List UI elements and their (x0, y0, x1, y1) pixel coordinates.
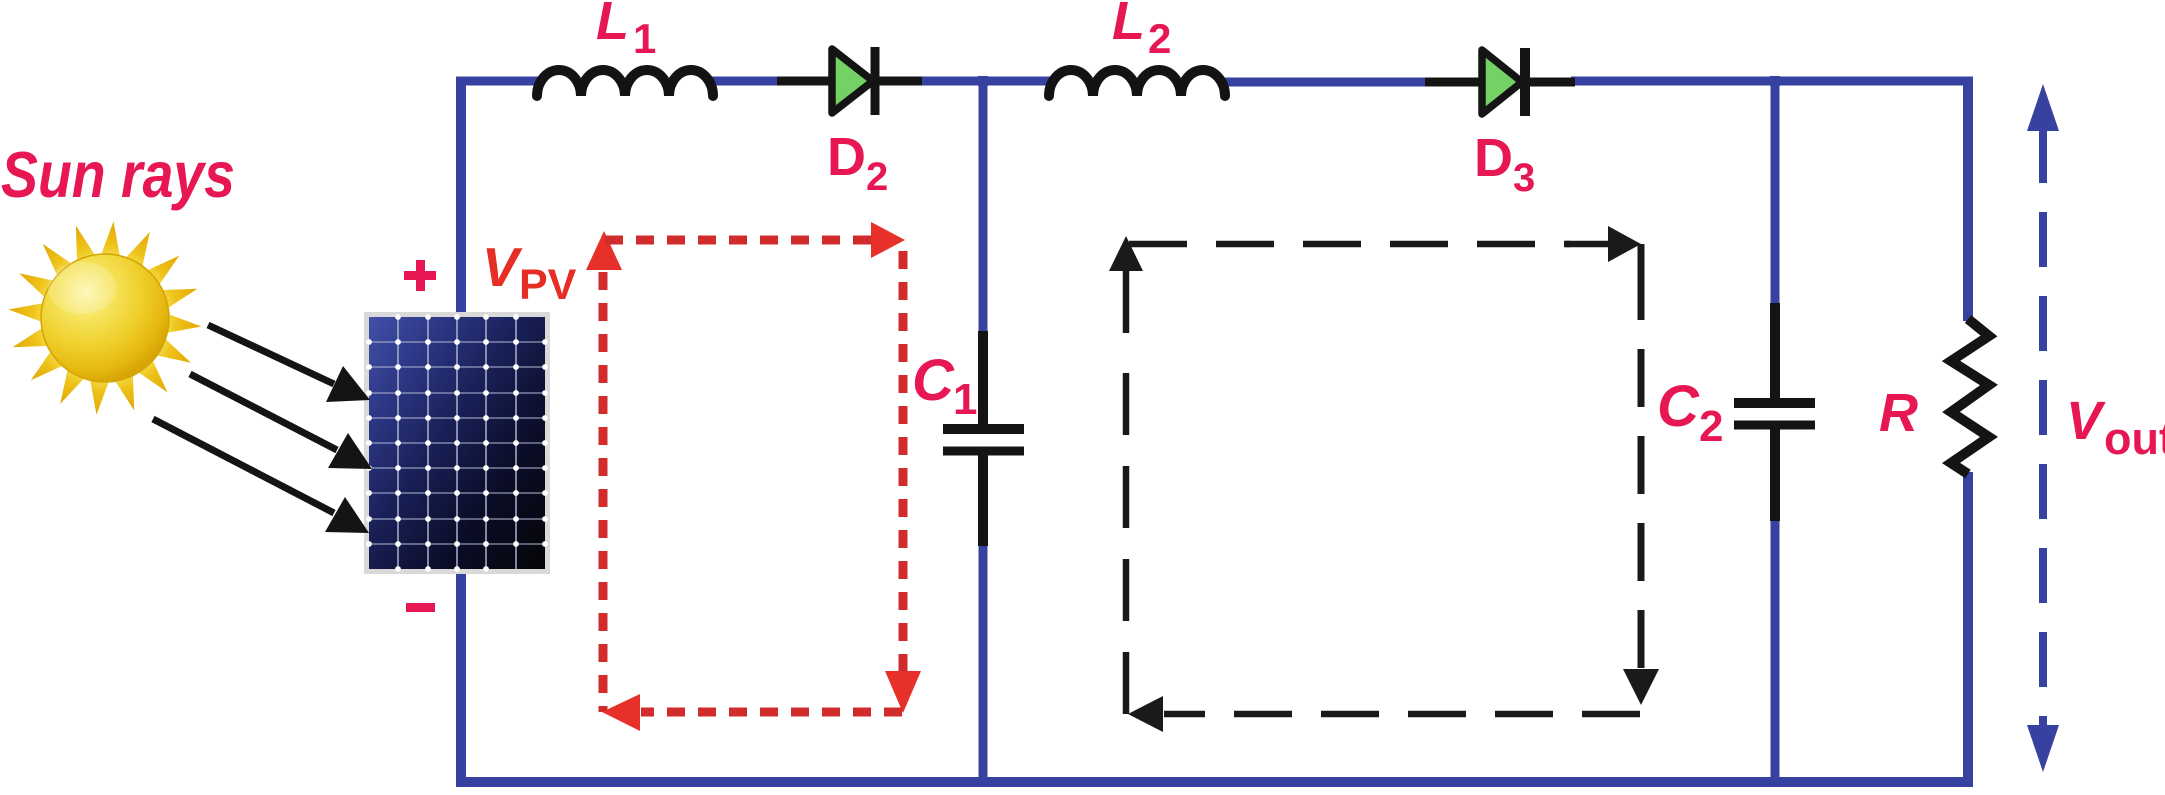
wire: C1 branch blue above (979, 78, 988, 335)
svg-text:C: C (912, 348, 955, 413)
inductor L1 (537, 70, 713, 96)
red current loop: top edge (dashed, arrow right) (603, 222, 905, 258)
svg-text:V: V (482, 236, 523, 298)
sun ray arrow 1 (208, 325, 370, 402)
sun (8, 221, 201, 414)
label C1 (912, 348, 977, 424)
svg-text:2: 2 (1699, 402, 1723, 451)
svg-text:3: 3 (1513, 156, 1535, 200)
wire: top horizontal segment L2 to D3 (1221, 78, 1429, 87)
svg-text:L: L (596, 0, 629, 51)
red current loop: right edge (dashed, arrow down) (885, 240, 921, 713)
black current loop: top edge (dashed, arrow right) (1129, 226, 1641, 262)
svg-text:1: 1 (633, 15, 656, 62)
label V_out (2066, 391, 2165, 464)
wire: top horizontal segment D2 to L2 (through node C1) (918, 77, 1053, 86)
red current loop: left edge (dashed, arrow up) (586, 231, 622, 712)
wire: bottom horizontal (return) (456, 777, 1973, 787)
node: junction of D3 cathode, C2 and R branch on top rail (1770, 76, 1780, 86)
black current loop: right edge (dashed, arrow down) (1623, 244, 1659, 705)
svg-text:C: C (1657, 374, 1700, 439)
label D3 (1474, 128, 1535, 200)
svg-text:D: D (827, 127, 866, 187)
capacitor C1 (943, 331, 1024, 546)
Vout arrow (blue dashed double-headed) (2027, 84, 2059, 772)
svg-text:2: 2 (1148, 15, 1171, 62)
wire: top horizontal segment L1 to D2 (709, 77, 781, 86)
svg-text:PV: PV (519, 261, 577, 309)
svg-text:V: V (2066, 391, 2106, 451)
wire: right vertical below resistor R (1963, 472, 1973, 782)
node: C1 to bottom rail (978, 777, 988, 787)
svg-text:2: 2 (866, 155, 888, 199)
diode D2 (777, 47, 922, 115)
svg-text:R: R (1879, 383, 1918, 443)
solar panel (PV module) (364, 312, 550, 574)
wire: top horizontal segment D3 to right corner (through node C2) (1571, 77, 1973, 86)
inductor L2 (1049, 70, 1225, 96)
svg-text:out: out (2104, 413, 2165, 464)
sun ray arrow 3 (153, 419, 369, 533)
svg-text:1: 1 (953, 375, 977, 424)
node: C2 to bottom rail (1770, 777, 1780, 787)
resistor R (1951, 319, 1989, 474)
black current loop: left edge (dashed, arrow up) (1109, 236, 1143, 714)
wire: C2 branch blue above (1771, 78, 1780, 306)
svg-text:D: D (1474, 128, 1513, 188)
diode D3 (1425, 48, 1575, 116)
label C2 (1657, 374, 1723, 451)
label D2 (827, 127, 888, 199)
label V_PV (482, 236, 577, 309)
black current loop: bottom edge (dashed, arrow left) (1128, 696, 1640, 732)
node: junction of D2 cathode, C1 and L2 on top rail (978, 76, 988, 86)
svg-text:Sun rays: Sun rays (1, 138, 235, 211)
wire: top horizontal segment from PV to L1 (456, 77, 541, 86)
wire: C2 branch blue below (1771, 518, 1780, 781)
label L2 (1112, 0, 1171, 62)
wire: right vertical above resistor R (1963, 77, 1973, 321)
capacitor C2 (1734, 303, 1815, 521)
wire: C1 branch blue below (979, 543, 988, 781)
sun ray arrow 2 (190, 374, 372, 469)
svg-text:L: L (1112, 0, 1145, 51)
red current loop: bottom edge (dashed, arrow left) (602, 694, 903, 731)
label minus (PV negative terminal) (406, 603, 435, 612)
label L1 (596, 0, 656, 62)
wire: left vertical (PV branch) (456, 77, 466, 782)
label + (PV positive terminal) (404, 260, 436, 291)
